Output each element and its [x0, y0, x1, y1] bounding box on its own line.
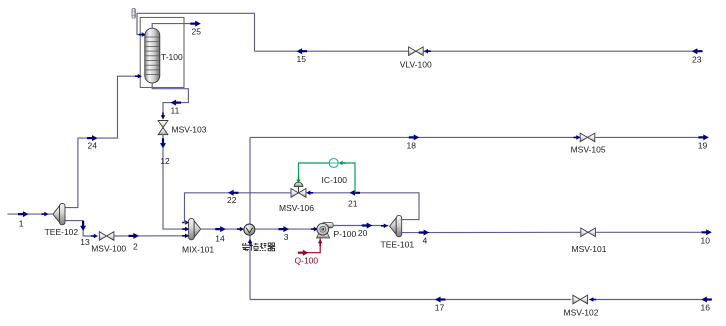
arrow stream 22 — [228, 190, 239, 196]
wire stream 22 to MIX-101 top — [185, 193, 292, 223]
nozzle arrow into TEE-102 — [42, 212, 49, 217]
svg-text:TEE-102: TEE-102 — [45, 227, 79, 237]
label MSV-102 — [564, 307, 599, 317]
boundary-crossing icon on sub-flowsheet corner — [132, 8, 136, 18]
svg-text:21: 21 — [348, 198, 358, 208]
wire stream 2 to MIX-101 — [114, 235, 187, 237]
nozzle arrow into MIX-101 middle port — [182, 227, 189, 232]
nozzle arrow into VLV-100 — [424, 49, 431, 54]
label 11 — [171, 105, 180, 115]
valve MSV-100 — [99, 232, 114, 241]
svg-text:P-100: P-100 — [334, 229, 357, 239]
mixer MIX-101 — [189, 218, 201, 239]
svg-text:24: 24 — [88, 141, 98, 151]
wire stream 15 top run into column sub-flowsheet — [137, 13, 255, 51]
svg-text:Q-100: Q-100 — [295, 255, 319, 265]
label exchanger (CJK) — [242, 243, 275, 251]
label 24 — [88, 141, 98, 151]
svg-text:TEE-101: TEE-101 — [381, 240, 415, 250]
wire stream 18 to MSV-105 to 19 — [250, 136, 703, 138]
svg-text:MSV-101: MSV-101 — [572, 244, 607, 254]
arrow stream 25 — [190, 21, 201, 27]
svg-text:23: 23 — [692, 55, 702, 65]
wire column bottoms to stream 11 — [152, 83, 188, 119]
nozzle arrow into TEE-101 — [381, 224, 388, 229]
control signal IC-100 to MSV-106 — [299, 163, 330, 179]
svg-text:2: 2 — [133, 242, 138, 252]
svg-text:MSV-102: MSV-102 — [564, 307, 599, 317]
label VLV-100 — [400, 59, 432, 69]
svg-text:MIX-101: MIX-101 — [182, 245, 214, 255]
wire stream 23 to VLV-100 to 15 — [255, 50, 704, 52]
svg-text:IC-100: IC-100 — [322, 175, 348, 185]
label 13 — [80, 237, 90, 247]
wire stream 1 — [7, 213, 52, 215]
wire stream 16 to MSV-102 to 17 to exchanger — [250, 299, 712, 301]
nozzle arrow into exchanger hot inlet — [237, 227, 244, 232]
arrow stream 2 — [129, 233, 140, 239]
splitter TEE-102 — [53, 203, 65, 224]
svg-text:13: 13 — [80, 237, 90, 247]
arrow stream 23 — [692, 48, 703, 54]
wire stream 3 — [255, 228, 316, 230]
nozzle arrow stream 15 into column top — [139, 32, 146, 37]
label 18 — [407, 141, 417, 151]
wire stream 20 — [333, 225, 388, 227]
label 20 — [358, 228, 368, 238]
label 17 — [435, 303, 445, 313]
svg-text:MSV-105: MSV-105 — [571, 144, 606, 154]
nozzle arrow cold inlet up into exchanger — [248, 239, 253, 246]
wire stream 21 riser TEE-101 to MSV-106 — [309, 193, 420, 220]
nozzle arrow into MSV-103 — [161, 113, 166, 120]
label MIX-101 — [182, 245, 214, 255]
arrow stream 3 — [279, 226, 290, 232]
label P-100 — [334, 229, 357, 239]
valve MSV-103 — [158, 121, 168, 135]
svg-text:12: 12 — [160, 156, 170, 166]
column T-100 vessel — [145, 28, 160, 83]
label TEE-101 — [381, 240, 415, 250]
svg-text:3: 3 — [284, 232, 289, 242]
arrow stream 18 — [409, 134, 420, 140]
label IC-100 — [322, 175, 348, 185]
nozzle arrow into MIX-101 bottom port — [182, 234, 189, 239]
label 16 — [701, 303, 711, 313]
valve MSV-102 — [573, 295, 588, 304]
label 10 — [701, 236, 711, 246]
label 14 — [215, 234, 225, 244]
arrow stream 13 down — [80, 221, 86, 231]
svg-text:1: 1 — [19, 219, 24, 229]
svg-text:20: 20 — [358, 228, 368, 238]
pump P-100 — [317, 223, 334, 238]
nozzle arrow into MSV-105 — [574, 135, 581, 140]
arrow stream 12 — [160, 138, 166, 148]
wire stream 13 TEE-102 to MSV-100 — [64, 221, 93, 236]
label 4 — [423, 236, 428, 246]
svg-text:15: 15 — [297, 54, 307, 64]
heat exchanger 氨换热器 — [244, 224, 255, 235]
valve VLV-100 — [409, 47, 424, 56]
green arrow onto MSV-106 actuator — [296, 177, 301, 184]
svg-text:MSV-100: MSV-100 — [91, 244, 126, 254]
svg-text:22: 22 — [227, 195, 237, 205]
arrow stream 16 — [701, 297, 712, 303]
label 19 — [698, 141, 708, 151]
label 23 — [692, 55, 702, 65]
wire cold side vertical through exchanger — [249, 137, 251, 299]
svg-text:19: 19 — [698, 141, 708, 151]
valve MSV-101 — [581, 228, 596, 237]
svg-text:17: 17 — [435, 303, 445, 313]
svg-text:MSV-106: MSV-106 — [279, 203, 314, 213]
label 1 — [19, 219, 24, 229]
label MSV-101 — [572, 244, 607, 254]
arrow stream 11 — [171, 100, 182, 106]
arrow stream 1 — [18, 211, 29, 217]
label 2 — [133, 242, 138, 252]
label Q-100 — [295, 255, 319, 265]
wire stream 24 into column lower inlet — [65, 76, 140, 207]
nozzle arrow stream 24 into column — [135, 74, 142, 79]
label MSV-100 — [91, 244, 126, 254]
nozzle arrow into MSV-106 — [306, 191, 313, 196]
svg-text:25: 25 — [192, 27, 202, 37]
arrow stream 21 — [350, 190, 361, 196]
wire stream 12 to MIX-101 — [163, 135, 187, 229]
wire stream 14 — [201, 228, 243, 230]
svg-text:18: 18 — [407, 141, 417, 151]
arrow Q-100 up into pump — [318, 239, 323, 246]
nozzle arrow into MSV-102 — [589, 297, 596, 302]
nozzle arrow into MSV-100 — [91, 234, 98, 239]
arrow Q-100 right — [298, 250, 309, 256]
green arrow into IC-100 — [338, 161, 345, 166]
control signal tap from stream 21 — [344, 163, 355, 193]
splitter TEE-101 — [390, 215, 402, 236]
arrow stream 4 — [419, 230, 430, 236]
label MSV-105 — [571, 144, 606, 154]
arrow stream 10 — [701, 229, 712, 235]
arrow stream 19 — [698, 134, 709, 140]
label 21 — [348, 198, 358, 208]
svg-text:VLV-100: VLV-100 — [400, 59, 432, 69]
svg-text:16: 16 — [701, 303, 711, 313]
arrow stream 15 — [297, 48, 308, 54]
label 22 — [227, 195, 237, 205]
nozzle arrow into P-100 — [311, 227, 318, 232]
svg-text:MSV-103: MSV-103 — [172, 124, 207, 134]
svg-text:4: 4 — [423, 236, 428, 246]
label TEE-102 — [45, 227, 79, 237]
label 25 — [192, 27, 202, 37]
wire stream 25 from column top — [152, 24, 194, 29]
sub-flowsheet boundary box of T-100 — [140, 17, 184, 87]
wire stream 4 to MSV-101 to 10 — [401, 231, 701, 233]
label 3 — [284, 232, 289, 242]
svg-text:T-100: T-100 — [161, 52, 183, 62]
label MSV-106 — [279, 203, 314, 213]
arrow stream 24 — [87, 135, 98, 141]
svg-text:10: 10 — [701, 236, 711, 246]
controller IC-100 — [329, 159, 338, 168]
valve MSV-105 — [580, 133, 595, 142]
svg-text:14: 14 — [215, 234, 225, 244]
label 15 — [297, 54, 307, 64]
energy stream Q-100 — [298, 239, 320, 253]
svg-text:11: 11 — [171, 105, 180, 115]
label T-100 — [161, 52, 183, 62]
label 12 — [160, 156, 170, 166]
arrow stream 14 — [215, 226, 226, 232]
nozzle arrow into MIX-101 top port — [182, 220, 189, 225]
arrow stream 20 — [362, 223, 373, 229]
control valve MSV-106 — [291, 182, 306, 197]
label MSV-103 — [172, 124, 207, 134]
arrow stream 17 — [435, 297, 446, 303]
